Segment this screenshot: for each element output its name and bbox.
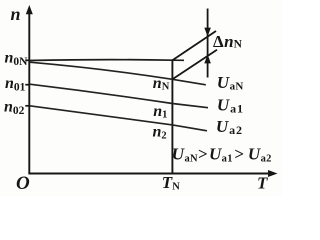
dimension up arrowhead [204,55,211,64]
svg-text:n: n [11,4,21,24]
svg-text:T: T [257,174,268,193]
tick n01 [25,84,29,86]
curve 1: n0N to nN to UaN [30,62,206,85]
x-axis [28,173,270,175]
y-axis arrowhead [26,5,33,14]
curve 3: n02 to n2 to Ua2 [30,106,207,131]
tick n0N [25,59,29,61]
svg-text:O: O [16,173,30,194]
upper slant segment [172,31,216,60]
lower slant segment [172,50,217,80]
dimension down arrowhead [204,28,211,37]
tick n02 [25,105,29,107]
dimension line shaft [207,9,209,78]
y-axis [28,10,30,174]
curve 2: n01 to n1 to Ua1 [30,84,208,108]
horizontal line at n0N level [29,59,184,62]
x-axis arrowhead [268,170,278,177]
vertical line at TN [171,60,173,173]
